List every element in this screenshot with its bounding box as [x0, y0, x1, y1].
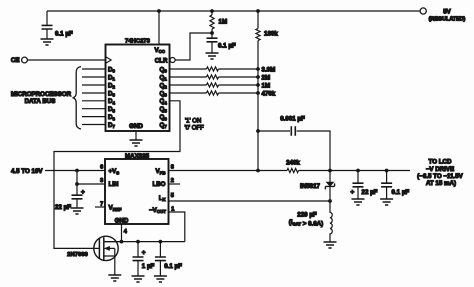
svg-text:TO LCD: TO LCD — [429, 159, 452, 166]
junction 0.1uF out node — [385, 169, 389, 173]
svg-text:Q2: Q2 — [160, 82, 168, 89]
svg-text:1 µF: 1 µF — [142, 263, 155, 270]
svg-text:0.1 µF: 0.1 µF — [55, 31, 73, 38]
svg-text:22 µF: 22 µF — [362, 189, 378, 196]
svg-text:Q3: Q3 — [160, 90, 168, 97]
brace for data bus — [73, 67, 81, 130]
junction LBI node — [75, 182, 79, 186]
junction 1M node — [256, 83, 260, 87]
terminal 5V output — [420, 8, 426, 14]
svg-text:180k: 180k — [264, 31, 278, 38]
svg-text:'0' OFF: '0' OFF — [185, 126, 205, 132]
junction fb cap tee — [256, 129, 260, 133]
junction 470k node — [256, 91, 260, 95]
svg-text:(−6.5 TO −11.5V: (−6.5 TO −11.5V — [417, 173, 464, 180]
svg-text:2N7000: 2N7000 — [67, 252, 88, 258]
svg-text:+VS: +VS — [109, 168, 120, 175]
junction CLR RC node — [210, 31, 214, 35]
wire VFB row / resistor 240k — [169, 168, 411, 172]
svg-text:LBI: LBI — [109, 181, 119, 188]
svg-text:22 µF: 22 µF — [55, 204, 71, 211]
ground below 1uF — [132, 276, 145, 282]
svg-text:D6: D6 — [108, 114, 115, 121]
svg-text:LX: LX — [159, 195, 166, 202]
junction 180k top — [256, 9, 260, 13]
svg-text:Q5: Q5 — [160, 106, 168, 113]
svg-text:IN5817: IN5817 — [300, 183, 321, 190]
clock input triangle of U1 — [106, 57, 112, 64]
svg-text:GND: GND — [115, 218, 129, 225]
resistor 2M from Q1 — [170, 75, 259, 79]
wire D2 input stub — [82, 84, 106, 86]
resistor 1M (CLR pull-up) — [210, 11, 214, 33]
svg-text:D0: D0 — [108, 66, 115, 73]
svg-text:1M: 1M — [219, 19, 228, 26]
svg-text:2: 2 — [171, 178, 174, 184]
svg-text:MAX635: MAX635 — [125, 153, 150, 160]
inductor L1 220uF — [330, 201, 332, 242]
svg-text:74HC273: 74HC273 — [125, 39, 151, 45]
op-amp U2 MAX635 body — [105, 159, 169, 224]
svg-text:D1: D1 — [108, 74, 115, 81]
wire D6 input stub — [82, 116, 106, 118]
svg-text:'1' ON: '1' ON — [185, 119, 201, 125]
svg-text:470k: 470k — [262, 90, 276, 97]
svg-text:0.1 µF: 0.1 µF — [218, 43, 236, 50]
svg-text:D4: D4 — [108, 98, 115, 105]
ground below 0.1uF output — [380, 199, 393, 205]
wire C2 stem — [211, 33, 213, 53]
wire C 22uF in stem — [76, 184, 78, 208]
svg-text:5: 5 — [171, 193, 174, 199]
junction U2 gnd node — [120, 240, 124, 244]
resistor 180k — [256, 11, 260, 171]
capacitor 0.001uF — [291, 126, 295, 135]
wire 5V top rail — [47, 10, 420, 12]
ground below C 0.1uF top-left — [41, 39, 54, 45]
wire bottom node row — [104, 241, 185, 243]
svg-text:Q1: Q1 — [160, 74, 168, 81]
wire CE to clock pin — [27, 59, 105, 61]
resistor 1M from Q2 — [170, 83, 259, 87]
svg-text:6: 6 — [100, 165, 103, 171]
ground below U1 — [130, 140, 143, 146]
capacitor plates C 1uF — [133, 257, 144, 261]
wire LBO stub — [169, 183, 181, 185]
svg-text:0.001 µF: 0.001 µF — [280, 115, 305, 122]
svg-text:GND: GND — [129, 123, 143, 130]
terminal CE input — [22, 57, 28, 63]
ground below Q1 — [108, 275, 121, 281]
svg-text:+: + — [142, 249, 146, 256]
svg-text:CLR: CLR — [155, 57, 168, 64]
op-amp U1 74HC273 latch body — [106, 45, 170, 132]
wire D5 input stub — [82, 108, 106, 110]
svg-text:1M: 1M — [262, 82, 271, 89]
wire -Vout pin down to gnd row — [169, 212, 185, 242]
svg-text:(REGULATED): (REGULATED) — [429, 17, 466, 23]
wire CLR to RC node — [175, 33, 212, 60]
junction 0.1uF node — [159, 240, 163, 244]
wire LBI tee — [77, 171, 105, 185]
wire C1 stem — [46, 11, 48, 39]
svg-text:4.5 TO 10V: 4.5 TO 10V — [11, 168, 43, 175]
capacitor plates C 0.1uF bottom — [155, 257, 166, 261]
ground below 0.1uF bottom — [154, 276, 167, 282]
wire C22uF out stem — [357, 171, 359, 200]
junction 22uF out node — [356, 169, 360, 173]
junction Vcc — [157, 9, 161, 13]
wire U2 GND pin — [121, 224, 123, 242]
svg-text:(lSAT > 0.6A): (lSAT > 0.6A) — [289, 219, 323, 227]
wire input to +Vs — [45, 170, 105, 172]
svg-text:5V: 5V — [443, 9, 451, 16]
svg-text:+: + — [351, 189, 355, 196]
svg-text:3: 3 — [100, 178, 103, 184]
svg-text:VFB: VFB — [156, 168, 166, 175]
junction 2M node — [256, 75, 260, 79]
wire Vcc pin of 74HC273 — [158, 11, 160, 45]
svg-text:MICROPROCESSOR: MICROPROCESSOR — [11, 91, 72, 98]
ground below C 0.1uF CLR — [206, 53, 219, 59]
svg-text:CE: CE — [11, 57, 20, 64]
wire D1 input stub — [82, 76, 106, 78]
wire C 1uF stem — [137, 242, 139, 276]
svg-text:0.1 µF: 0.1 µF — [164, 263, 182, 270]
svg-text:D5: D5 — [108, 106, 115, 113]
wire U1 GND pin — [135, 131, 137, 140]
junction 1uF node — [136, 240, 140, 244]
transistor Q1 2N7000 — [94, 236, 118, 260]
svg-text:Q4: Q4 — [160, 98, 168, 105]
wire Vref stub — [95, 206, 105, 208]
svg-text:8: 8 — [171, 165, 174, 171]
capacitor plates C 22uF output — [353, 183, 364, 187]
junction Lx node — [328, 199, 332, 203]
svg-text:4: 4 — [124, 229, 128, 235]
ground below L1 — [324, 242, 337, 248]
wire C 0.1uF btm stem — [159, 242, 161, 276]
junction input node — [75, 169, 79, 173]
inverter bubble on CLR pin — [170, 58, 175, 63]
svg-text:LBO: LBO — [152, 181, 165, 188]
capacitor plates C 0.1uF CLR — [207, 38, 218, 42]
junction 1M top — [210, 9, 214, 13]
resistor 470k from Q3 — [170, 91, 259, 95]
wire D4 input stub — [82, 100, 106, 102]
svg-text:Q6: Q6 — [160, 114, 168, 121]
svg-text:VREF: VREF — [109, 205, 122, 212]
ground below 22uF output — [352, 199, 365, 205]
svg-text:D2: D2 — [108, 82, 115, 89]
junction -V output node — [328, 169, 332, 173]
svg-text:Q0: Q0 — [160, 66, 168, 73]
capacitor plates C 22uF input — [72, 195, 83, 199]
wire C0.1uF out stem — [386, 171, 388, 200]
svg-text:AT 15 mA): AT 15 mA) — [426, 180, 456, 187]
svg-text:VCC: VCC — [155, 47, 166, 54]
svg-text:Q7: Q7 — [160, 122, 168, 129]
svg-text:220 µF: 220 µF — [297, 211, 317, 218]
svg-text:D3: D3 — [108, 90, 115, 97]
svg-text:−V DRIVE: −V DRIVE — [426, 166, 454, 173]
svg-text:240k: 240k — [286, 160, 300, 167]
diode D1 1N5817 — [329, 171, 331, 202]
wire D7 input stub — [82, 124, 106, 126]
wire from 0.001uF down to -V node — [297, 131, 330, 171]
resistor 3.9M from Q0 — [170, 67, 259, 71]
svg-text:3.9M: 3.9M — [262, 66, 276, 73]
junction 3.9M node — [256, 67, 260, 71]
svg-text:−VOUT: −VOUT — [149, 207, 166, 214]
wire D0 input stub — [82, 68, 106, 70]
wire to 0.001uF — [258, 130, 290, 132]
svg-text:0.1 µF: 0.1 µF — [392, 189, 410, 196]
svg-text:D7: D7 — [108, 122, 115, 129]
capacitor plates C 0.1uF output — [381, 183, 392, 187]
wire Lx pin to inductor node — [169, 200, 331, 202]
junction 240k left node — [256, 169, 260, 173]
ground below 22uF input — [71, 208, 84, 214]
capacitor plates C 0.1uF top-left — [42, 25, 53, 29]
svg-text:+: + — [81, 189, 85, 196]
wire Q4 to MOSFET gate — [54, 101, 180, 249]
svg-text:2M: 2M — [262, 74, 271, 81]
wire D3 input stub — [82, 92, 106, 94]
svg-text:DATA BUS: DATA BUS — [25, 98, 56, 105]
